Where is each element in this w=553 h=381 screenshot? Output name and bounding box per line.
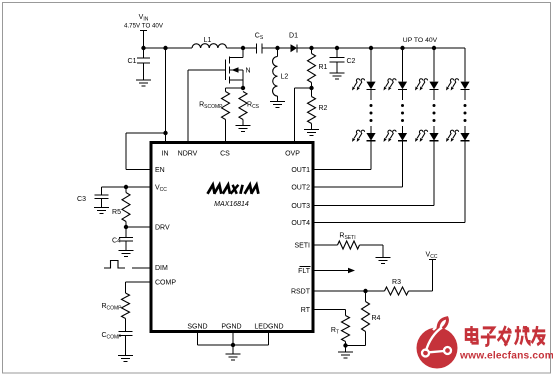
PWM pulse symbol: [104, 261, 125, 269]
ground PGND: [232, 345, 234, 354]
diode D1: [291, 44, 298, 52]
wire rail segment 2: [227, 47, 257, 49]
ground R2: [304, 129, 319, 131]
capacitor CCOMP: [119, 331, 133, 333]
wire LED string 4 mid lower: [464, 126, 466, 133]
wire LED string 3 to OUT3: [433, 141, 435, 206]
wire LED string 2 to OUT2: [402, 141, 404, 187]
svg-text:CS: CS: [220, 151, 230, 158]
ground RCS: [236, 125, 251, 127]
svg-text:C1: C1: [128, 58, 137, 65]
wire R4 bottom: [346, 345, 366, 347]
svg-text:R2: R2: [319, 105, 328, 112]
wire LED string 2 mid upper: [402, 89, 404, 100]
LED D1b: [366, 133, 375, 141]
resistor R2: [311, 88, 313, 97]
svg-text:DRV: DRV: [155, 225, 170, 232]
wire RSDT: [313, 290, 366, 292]
wire SGND stub: [197, 333, 199, 345]
junction rail LED string 2: [400, 46, 404, 50]
junction rail R1: [309, 46, 313, 50]
logo MAXIM: [208, 185, 215, 194]
inductor L2: [277, 48, 279, 57]
svg-text:C3: C3: [77, 196, 86, 203]
LED D2a: [398, 82, 407, 90]
resistor RSCOMP: [225, 88, 227, 92]
svg-text:PGND: PGND: [221, 324, 241, 331]
svg-text:IN: IN: [162, 151, 169, 158]
junction RSDT: [363, 289, 367, 293]
wire LED string 3 mid upper: [433, 89, 435, 100]
LED D4b: [460, 133, 469, 141]
LED D3b: [429, 133, 438, 141]
LED string 1 ellipsis dots: [370, 104, 373, 107]
node VIN input terminal: [140, 30, 147, 32]
transistor N body stub: [230, 69, 244, 71]
ground C1: [136, 79, 151, 81]
svg-text:SETI: SETI: [294, 243, 310, 250]
svg-text:L2: L2: [281, 74, 289, 81]
svg-text:RT: RT: [301, 307, 311, 314]
wire LED string 3 anode: [433, 48, 435, 82]
wire LED string 1 to OUT1: [370, 141, 372, 170]
wire LEDGND stub: [268, 333, 270, 345]
wire LED string 2 mid lower: [402, 126, 404, 133]
ground RSETI: [376, 257, 391, 259]
resistor R4: [365, 291, 367, 302]
transistor N source stub: [230, 79, 244, 81]
LED D4b light arrows: [448, 130, 454, 138]
wire LED string 4 anode: [464, 48, 466, 82]
wire LED string 1 anode: [370, 48, 372, 82]
LED D1a: [366, 82, 375, 90]
wire IN pin: [165, 48, 167, 142]
wire OVP branch: [295, 87, 312, 89]
LED D3a light arrows: [417, 79, 423, 87]
wire SETI to ground: [360, 244, 384, 246]
svg-text:DIM: DIM: [155, 265, 168, 272]
wire ground bus: [198, 344, 269, 346]
resistor RCS: [239, 92, 247, 120]
inductor L1: [192, 44, 227, 48]
wire VCC: [102, 186, 152, 188]
wire LED string 3 mid lower: [433, 126, 435, 133]
junction RT/R4 ground: [343, 343, 347, 347]
ground CCOMP: [118, 355, 133, 357]
wire PGND stub: [232, 333, 234, 345]
wire LED string 4 to OUT4: [464, 141, 466, 223]
ground C2: [330, 72, 345, 74]
svg-text:OUT3: OUT3: [291, 203, 310, 210]
svg-text:OUT2: OUT2: [291, 185, 310, 192]
wire RT: [313, 309, 346, 311]
junction DRV/C4: [124, 225, 128, 229]
op-amp U1 MAX16814 body: [151, 143, 313, 332]
junction rail C2: [335, 46, 339, 50]
svg-text:RSDT: RSDT: [291, 289, 311, 296]
svg-text:MAX16814: MAX16814: [214, 201, 249, 208]
svg-text:NDRV: NDRV: [178, 151, 198, 158]
transistor N channel: [229, 57, 231, 64]
transistor N gate bar: [225, 60, 227, 81]
wire FLT: [313, 270, 348, 272]
capacitor CS: [256, 44, 258, 54]
svg-text:N: N: [246, 68, 251, 75]
LED D3b light arrows: [417, 130, 423, 138]
wire COMP: [126, 281, 152, 283]
resistor RSETI: [338, 241, 360, 249]
svg-text:R5: R5: [112, 209, 121, 216]
junction rail IN: [163, 46, 167, 50]
svg-text:COMP: COMP: [155, 280, 176, 287]
LED string 4 ellipsis dots: [464, 104, 467, 107]
junction source: [241, 86, 245, 90]
svg-text:R1: R1: [319, 64, 328, 71]
capacitor C2: [336, 48, 338, 58]
ground L2: [270, 101, 285, 103]
svg-text:4.75V TO 40V: 4.75V TO 40V: [124, 23, 164, 30]
wire LED string 2 anode: [402, 48, 404, 82]
wire R3 to VCC: [409, 290, 433, 292]
LED D2b: [398, 133, 407, 141]
wire rail segment 4: [297, 47, 465, 49]
svg-text:FLT: FLT: [298, 268, 311, 275]
wire LED string 4 mid upper: [464, 89, 466, 100]
wire rail segment 3: [262, 47, 291, 49]
svg-text:OVP: OVP: [285, 151, 300, 158]
ground RT: [345, 346, 347, 353]
svg-text:UP TO 40V: UP TO 40V: [403, 37, 438, 44]
LED string 3 ellipsis dots: [433, 104, 436, 107]
resistor R1: [311, 48, 313, 54]
LED D1a light arrows: [354, 79, 360, 87]
svg-text:www.elecfans.com: www.elecfans.com: [459, 350, 553, 361]
svg-text:EN: EN: [155, 167, 165, 174]
svg-text:D1: D1: [289, 33, 298, 40]
junction rail L2: [275, 46, 279, 50]
watermark logo: [417, 328, 458, 369]
svg-text:OUT4: OUT4: [291, 220, 310, 227]
capacitor C4: [125, 227, 127, 238]
wire DIM: [132, 267, 151, 269]
wire rail segment 1: [144, 47, 193, 49]
junction rail MOSFET drain: [241, 46, 245, 50]
LED D4a: [460, 82, 469, 90]
wire EN branch: [126, 132, 166, 134]
svg-text:R3: R3: [392, 279, 401, 286]
junction rail LED string 1: [369, 46, 373, 50]
wire RSDT to R3: [366, 290, 385, 292]
resistor R5: [125, 187, 127, 193]
svg-text:SGND: SGND: [187, 324, 207, 331]
FLT output arrow: [348, 268, 355, 274]
svg-text:L1: L1: [204, 37, 212, 44]
wire SETI: [313, 244, 338, 246]
watermark text 电子发烧友: [466, 326, 545, 346]
LED D4a light arrows: [448, 79, 454, 87]
capacitor C1: [143, 48, 145, 58]
wire source node: [226, 87, 244, 89]
wire LED string 1 mid upper: [370, 89, 372, 100]
wire LED string 1 mid lower: [370, 126, 372, 133]
wire gate to NDRV: [188, 69, 226, 71]
resistor RCOMP: [122, 293, 130, 319]
ground C4: [119, 250, 134, 252]
junction R1/R2: [309, 86, 313, 90]
junction VCC/R5: [124, 185, 128, 189]
LED D2a light arrows: [386, 79, 392, 87]
capacitor C3: [101, 187, 103, 195]
LED string 2 ellipsis dots: [401, 104, 404, 107]
LED D3a: [429, 82, 438, 90]
wire drain: [242, 48, 244, 58]
LED D1b light arrows: [354, 130, 360, 138]
junction PGND: [231, 343, 235, 347]
svg-text:C2: C2: [347, 58, 356, 65]
resistor RT: [342, 316, 350, 342]
resistor R3: [385, 287, 409, 295]
wire DRV: [126, 226, 151, 228]
ground C3: [94, 207, 109, 209]
svg-text:LEDGND: LEDGND: [254, 324, 283, 331]
junction IN/EN: [163, 131, 167, 135]
svg-text:C4: C4: [112, 238, 121, 245]
junction rail VIN/C1: [141, 46, 145, 50]
junction rail LED string 3: [432, 46, 436, 50]
svg-text:R4: R4: [372, 315, 381, 322]
LED D2b light arrows: [386, 130, 392, 138]
svg-text:OUT1: OUT1: [291, 167, 310, 174]
